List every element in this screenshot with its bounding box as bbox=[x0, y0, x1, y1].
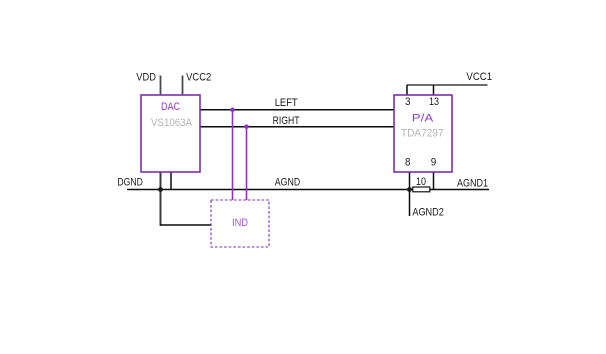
svg-text:AGND2: AGND2 bbox=[412, 207, 443, 219]
svg-text:3: 3 bbox=[405, 96, 411, 108]
svg-text:LEFT: LEFT bbox=[275, 97, 298, 109]
svg-text:TDA7297: TDA7297 bbox=[401, 128, 444, 140]
svg-text:VS1063A: VS1063A bbox=[151, 117, 193, 129]
svg-text:10: 10 bbox=[416, 176, 426, 188]
svg-text:P/A: P/A bbox=[412, 112, 434, 124]
svg-text:AGND: AGND bbox=[275, 177, 300, 189]
svg-text:VDD: VDD bbox=[136, 72, 156, 84]
svg-text:AGND1: AGND1 bbox=[457, 177, 488, 189]
svg-text:RIGHT: RIGHT bbox=[273, 115, 300, 127]
svg-text:VCC2: VCC2 bbox=[186, 72, 211, 84]
svg-text:IND: IND bbox=[232, 217, 248, 229]
svg-text:DAC: DAC bbox=[161, 101, 180, 113]
svg-text:13: 13 bbox=[429, 96, 439, 108]
svg-text:VCC1: VCC1 bbox=[466, 71, 492, 83]
svg-text:DGND: DGND bbox=[117, 177, 143, 189]
svg-text:8: 8 bbox=[405, 156, 411, 168]
svg-text:9: 9 bbox=[431, 156, 437, 168]
